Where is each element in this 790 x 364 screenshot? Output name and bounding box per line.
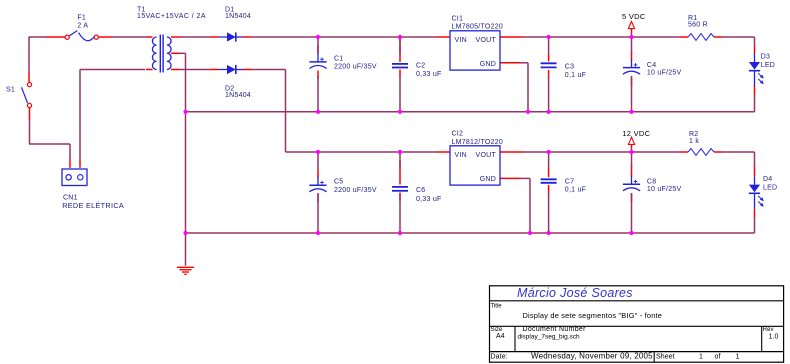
svg-text:1N5404: 1N5404 <box>225 13 251 20</box>
svg-text:D4: D4 <box>763 176 772 183</box>
svg-text:5 VDC: 5 VDC <box>622 12 646 21</box>
svg-text:C1: C1 <box>334 55 343 62</box>
svg-text:Display de sete segmentos "BIG: Display de sete segmentos "BIG" - fonte <box>523 311 663 320</box>
svg-text:560 R: 560 R <box>688 22 708 29</box>
svg-text:Sheet: Sheet <box>656 354 675 361</box>
svg-text:LED: LED <box>761 62 775 69</box>
svg-text:C4: C4 <box>647 62 656 69</box>
svg-text:A4: A4 <box>496 333 505 340</box>
svg-text:C5: C5 <box>334 179 343 186</box>
svg-text:REDE ELÉTRICA: REDE ELÉTRICA <box>62 201 124 210</box>
svg-text:LM7812/TO220: LM7812/TO220 <box>452 139 504 146</box>
svg-text:GND: GND <box>480 176 496 183</box>
svg-text:10 uF/25V: 10 uF/25V <box>647 70 682 77</box>
svg-text:C6: C6 <box>416 187 425 194</box>
svg-text:GND: GND <box>480 61 496 68</box>
svg-text:display_7seg_big.sch: display_7seg_big.sch <box>518 334 581 341</box>
svg-text:12 VDC: 12 VDC <box>622 129 650 138</box>
svg-text:1: 1 <box>699 354 703 361</box>
svg-text:of: of <box>715 354 721 361</box>
svg-text:0,33 uF: 0,33 uF <box>416 196 442 203</box>
svg-text:2200 uF/35V: 2200 uF/35V <box>334 64 377 71</box>
svg-text:Márcio José Soares: Márcio José Soares <box>517 286 633 300</box>
svg-text:CI2: CI2 <box>452 131 464 138</box>
svg-text:2 A: 2 A <box>77 22 88 29</box>
svg-text:15VAC+15VAC / 2A: 15VAC+15VAC / 2A <box>137 13 206 20</box>
svg-text:C8: C8 <box>647 178 656 185</box>
svg-text:VIN: VIN <box>455 152 467 159</box>
svg-text:Size: Size <box>491 327 503 333</box>
svg-text:1 k: 1 k <box>689 138 699 145</box>
svg-text:1: 1 <box>736 354 740 361</box>
svg-text:C2: C2 <box>416 63 425 70</box>
svg-text:C7: C7 <box>565 179 574 186</box>
svg-text:D3: D3 <box>761 54 770 61</box>
svg-text:Title: Title <box>491 304 503 310</box>
svg-text:Wednesday, November 09, 2005: Wednesday, November 09, 2005 <box>531 352 653 361</box>
svg-text:0,1 uF: 0,1 uF <box>565 72 586 79</box>
svg-text:VOUT: VOUT <box>476 37 497 44</box>
svg-text:1.0: 1.0 <box>769 334 779 341</box>
svg-text:0,33 uF: 0,33 uF <box>416 71 442 78</box>
svg-text:LED: LED <box>763 185 777 192</box>
svg-text:LM7805/TO220: LM7805/TO220 <box>452 24 504 31</box>
svg-text:1N5404: 1N5404 <box>225 92 251 99</box>
svg-text:VIN: VIN <box>455 37 467 44</box>
svg-text:VOUT: VOUT <box>476 152 497 159</box>
svg-text:F1: F1 <box>77 14 86 21</box>
svg-text:2200 uF/35V: 2200 uF/35V <box>334 187 377 194</box>
svg-text:0,1 uF: 0,1 uF <box>565 186 586 193</box>
svg-text:Date:: Date: <box>491 354 508 361</box>
svg-text:C3: C3 <box>565 64 574 71</box>
svg-text:S1: S1 <box>6 86 15 93</box>
svg-text:CI1: CI1 <box>452 16 464 23</box>
svg-text:Document Number: Document Number <box>523 326 587 333</box>
svg-text:Rev: Rev <box>763 327 774 333</box>
svg-text:10 uF/25V: 10 uF/25V <box>647 186 682 193</box>
